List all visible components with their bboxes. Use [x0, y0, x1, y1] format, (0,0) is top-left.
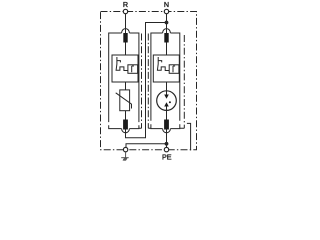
right module box bottom arc — [163, 129, 171, 133]
left thermal disconnector box — [112, 55, 138, 82]
junction dot PE bus — [165, 142, 169, 146]
wire disconnector to varistor — [125, 82, 127, 90]
right disconnector indicator box — [169, 65, 179, 74]
right thermal disconnector box — [153, 55, 179, 82]
svg-text:N: N — [164, 0, 169, 9]
spark gap trigger dot — [169, 101, 171, 103]
module outline dash-dot right — [180, 35, 185, 128]
junction dot N branch — [165, 21, 169, 25]
left module box top arc — [122, 29, 130, 33]
left disconnector indicator bar — [132, 66, 134, 72]
right disconnector switch symbol — [157, 57, 169, 71]
left disconnector switch symbol — [116, 57, 128, 71]
wire right module to PE terminal — [166, 130, 168, 148]
wire N branch to varistor bottom — [126, 23, 167, 138]
spark gap top arrow — [164, 95, 169, 99]
varistor — [120, 90, 130, 111]
wire into left disconnector — [125, 43, 127, 56]
wire into right disconnector — [166, 43, 168, 56]
device enclosure dash-dot border — [101, 12, 197, 150]
varistor diagonal — [116, 93, 132, 109]
auxiliary outline bottom right — [187, 123, 191, 150]
left top terminal clamp — [123, 33, 127, 43]
left module box — [109, 33, 139, 129]
left bottom terminal clamp — [123, 120, 128, 130]
wire PE bus — [126, 144, 167, 148]
right disconnector switch tick — [158, 61, 162, 63]
terminal N circle — [164, 9, 168, 13]
right module box top arc — [163, 29, 171, 33]
terminal R circle — [123, 9, 127, 13]
left disconnector indicator box — [128, 65, 138, 74]
svg-text:R: R — [123, 0, 128, 9]
spark gap bottom arrow — [164, 102, 169, 106]
right module box — [151, 33, 180, 129]
spark gap bottom electrode wire — [166, 106, 168, 110]
right bottom terminal clamp — [164, 120, 169, 130]
wire N terminal to module — [166, 14, 168, 33]
wire spark gap to bottom clamp — [166, 110, 168, 120]
module outline dash-dot between modules left — [139, 34, 142, 129]
terminal earth circle — [123, 147, 127, 151]
right disconnector indicator bar — [173, 66, 175, 72]
spark gap circle — [157, 91, 177, 111]
terminal PE circle — [164, 147, 168, 151]
left disconnector switch tick — [117, 61, 121, 63]
spark gap top electrode wire — [166, 91, 168, 95]
svg-text:PE: PE — [162, 153, 172, 162]
wire varistor to bottom clamp — [125, 111, 127, 120]
left module box bottom arc — [122, 129, 130, 133]
ground symbol — [121, 152, 129, 161]
wire disconnector to spark gap — [166, 82, 168, 91]
right top terminal clamp — [164, 33, 168, 43]
module outline dash-dot between modules right — [148, 34, 151, 129]
wire R terminal to module — [125, 14, 127, 33]
